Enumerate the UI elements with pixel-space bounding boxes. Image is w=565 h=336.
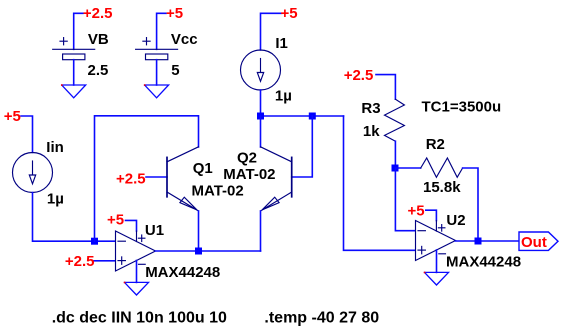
wire I1 bottom to node xyxy=(260,90,262,116)
svg-text:R3: R3 xyxy=(361,100,380,117)
wire Vcc bottom xyxy=(156,60,158,85)
current source I1 xyxy=(241,50,281,90)
node junction (U1 output / Q1 emitter) xyxy=(195,248,202,255)
ground corner dot (VB) xyxy=(61,84,63,86)
wire U1 ground stub xyxy=(136,261,138,283)
ground corner dot (Vcc) xyxy=(144,84,146,86)
wire feedback riser to Q1 collector xyxy=(95,116,199,241)
svg-text:VB: VB xyxy=(88,31,109,48)
wire Q1 emitter to U1 output node xyxy=(198,211,200,251)
wire U2 +5 supply xyxy=(426,210,437,220)
wire Q2 base tap xyxy=(292,116,313,177)
svg-text:Q2: Q2 xyxy=(237,150,257,167)
voltage source Vcc xyxy=(136,38,178,60)
svg-text:U2: U2 xyxy=(446,212,465,229)
svg-text:1µ: 1µ xyxy=(275,88,292,105)
node junction (U2 output / R2 feedback) xyxy=(475,238,482,245)
wire U1 output rail xyxy=(156,250,261,252)
svg-text:15.8k: 15.8k xyxy=(423,179,461,196)
svg-text:+2.5: +2.5 xyxy=(116,171,146,188)
wire Iin bottom to U1 minus input xyxy=(33,193,116,242)
wire I1 top to +5 flag xyxy=(261,13,282,50)
svg-text:.temp -40 27 80: .temp -40 27 80 xyxy=(264,309,379,326)
wire Q2 emitter down to output rail xyxy=(260,211,262,251)
ground (U2) xyxy=(425,272,449,285)
svg-text:+2.5: +2.5 xyxy=(344,67,374,84)
ground (VB) xyxy=(62,85,86,98)
node junction (I1 / Q2 collector) xyxy=(257,113,264,120)
wire collector net top rail xyxy=(261,115,344,117)
svg-text:5: 5 xyxy=(171,62,179,79)
svg-text:MAX44248: MAX44248 xyxy=(145,264,220,281)
transistor Q2 xyxy=(261,147,292,211)
svg-text:Q1: Q1 xyxy=(193,160,213,177)
resistor R3 xyxy=(385,99,405,141)
wire Q2 collector stub xyxy=(260,116,262,147)
node junction (U1 minus / feedback riser) xyxy=(91,238,98,245)
svg-text:I1: I1 xyxy=(275,35,288,52)
node junction (Q2 base tap) xyxy=(309,113,316,120)
wire U2 output to Out port xyxy=(456,240,520,242)
op-amp U1 supply pin stub xyxy=(136,231,138,242)
svg-text:TC1=3500u: TC1=3500u xyxy=(422,99,502,116)
node Out port flag xyxy=(519,232,558,250)
op-amp U1 xyxy=(116,231,156,271)
wire VB top to +2.5 flag xyxy=(74,13,83,49)
wire U1 +5 supply xyxy=(126,220,137,231)
svg-text:2.5: 2.5 xyxy=(88,62,109,79)
svg-text:1µ: 1µ xyxy=(47,191,64,208)
svg-text:Vcc: Vcc xyxy=(171,31,198,48)
svg-text:Out: Out xyxy=(521,234,547,251)
ground (U1) xyxy=(125,282,149,295)
svg-text:MAX44248: MAX44248 xyxy=(446,254,521,271)
resistor R2 xyxy=(421,158,463,177)
svg-text:+5: +5 xyxy=(281,5,298,22)
wire VB bottom xyxy=(73,60,75,85)
wire Q1 base xyxy=(146,176,167,178)
wire R2 right down to output node xyxy=(463,168,478,241)
voltage source VB xyxy=(53,38,95,60)
wire R2 left xyxy=(395,167,420,169)
svg-text:+5: +5 xyxy=(107,212,124,229)
ground corner dot (U1) xyxy=(124,282,126,284)
svg-text:MAT-02: MAT-02 xyxy=(223,166,275,183)
svg-text:.dc dec IIN 10n 100u 10: .dc dec IIN 10n 100u 10 xyxy=(52,309,227,326)
svg-text:Iin: Iin xyxy=(46,139,64,156)
svg-text:R2: R2 xyxy=(426,136,445,153)
wire R3 top xyxy=(376,75,395,100)
node junction (R3 / R2 / U2 minus) xyxy=(392,165,399,172)
wire U1 plus input from +2.5 xyxy=(94,260,116,262)
op-amp U2 xyxy=(416,221,456,261)
svg-text:+5: +5 xyxy=(166,5,183,22)
wire Vcc top to +5 flag xyxy=(157,13,166,49)
ground corner dot (U2) xyxy=(424,272,426,274)
svg-text:+5: +5 xyxy=(4,108,21,125)
wire Iin top to +5 flag xyxy=(21,116,33,153)
ground (Vcc) xyxy=(145,85,169,98)
svg-text:+2.5: +2.5 xyxy=(65,253,95,270)
wire R3 bottom to node xyxy=(394,141,396,168)
op-amp U2 supply pin stub xyxy=(435,221,437,232)
wire U2 ground stub xyxy=(436,250,438,272)
transistor Q1 xyxy=(167,147,199,211)
svg-text:+2.5: +2.5 xyxy=(83,5,113,22)
svg-text:U1: U1 xyxy=(145,222,164,239)
svg-text:1k: 1k xyxy=(363,123,380,140)
svg-text:+5: +5 xyxy=(408,203,425,220)
current source Iin xyxy=(13,153,53,193)
wire to U2 plus input xyxy=(344,116,416,250)
svg-text:MAT-02: MAT-02 xyxy=(192,183,244,200)
wire U2 minus input from node xyxy=(395,168,415,231)
